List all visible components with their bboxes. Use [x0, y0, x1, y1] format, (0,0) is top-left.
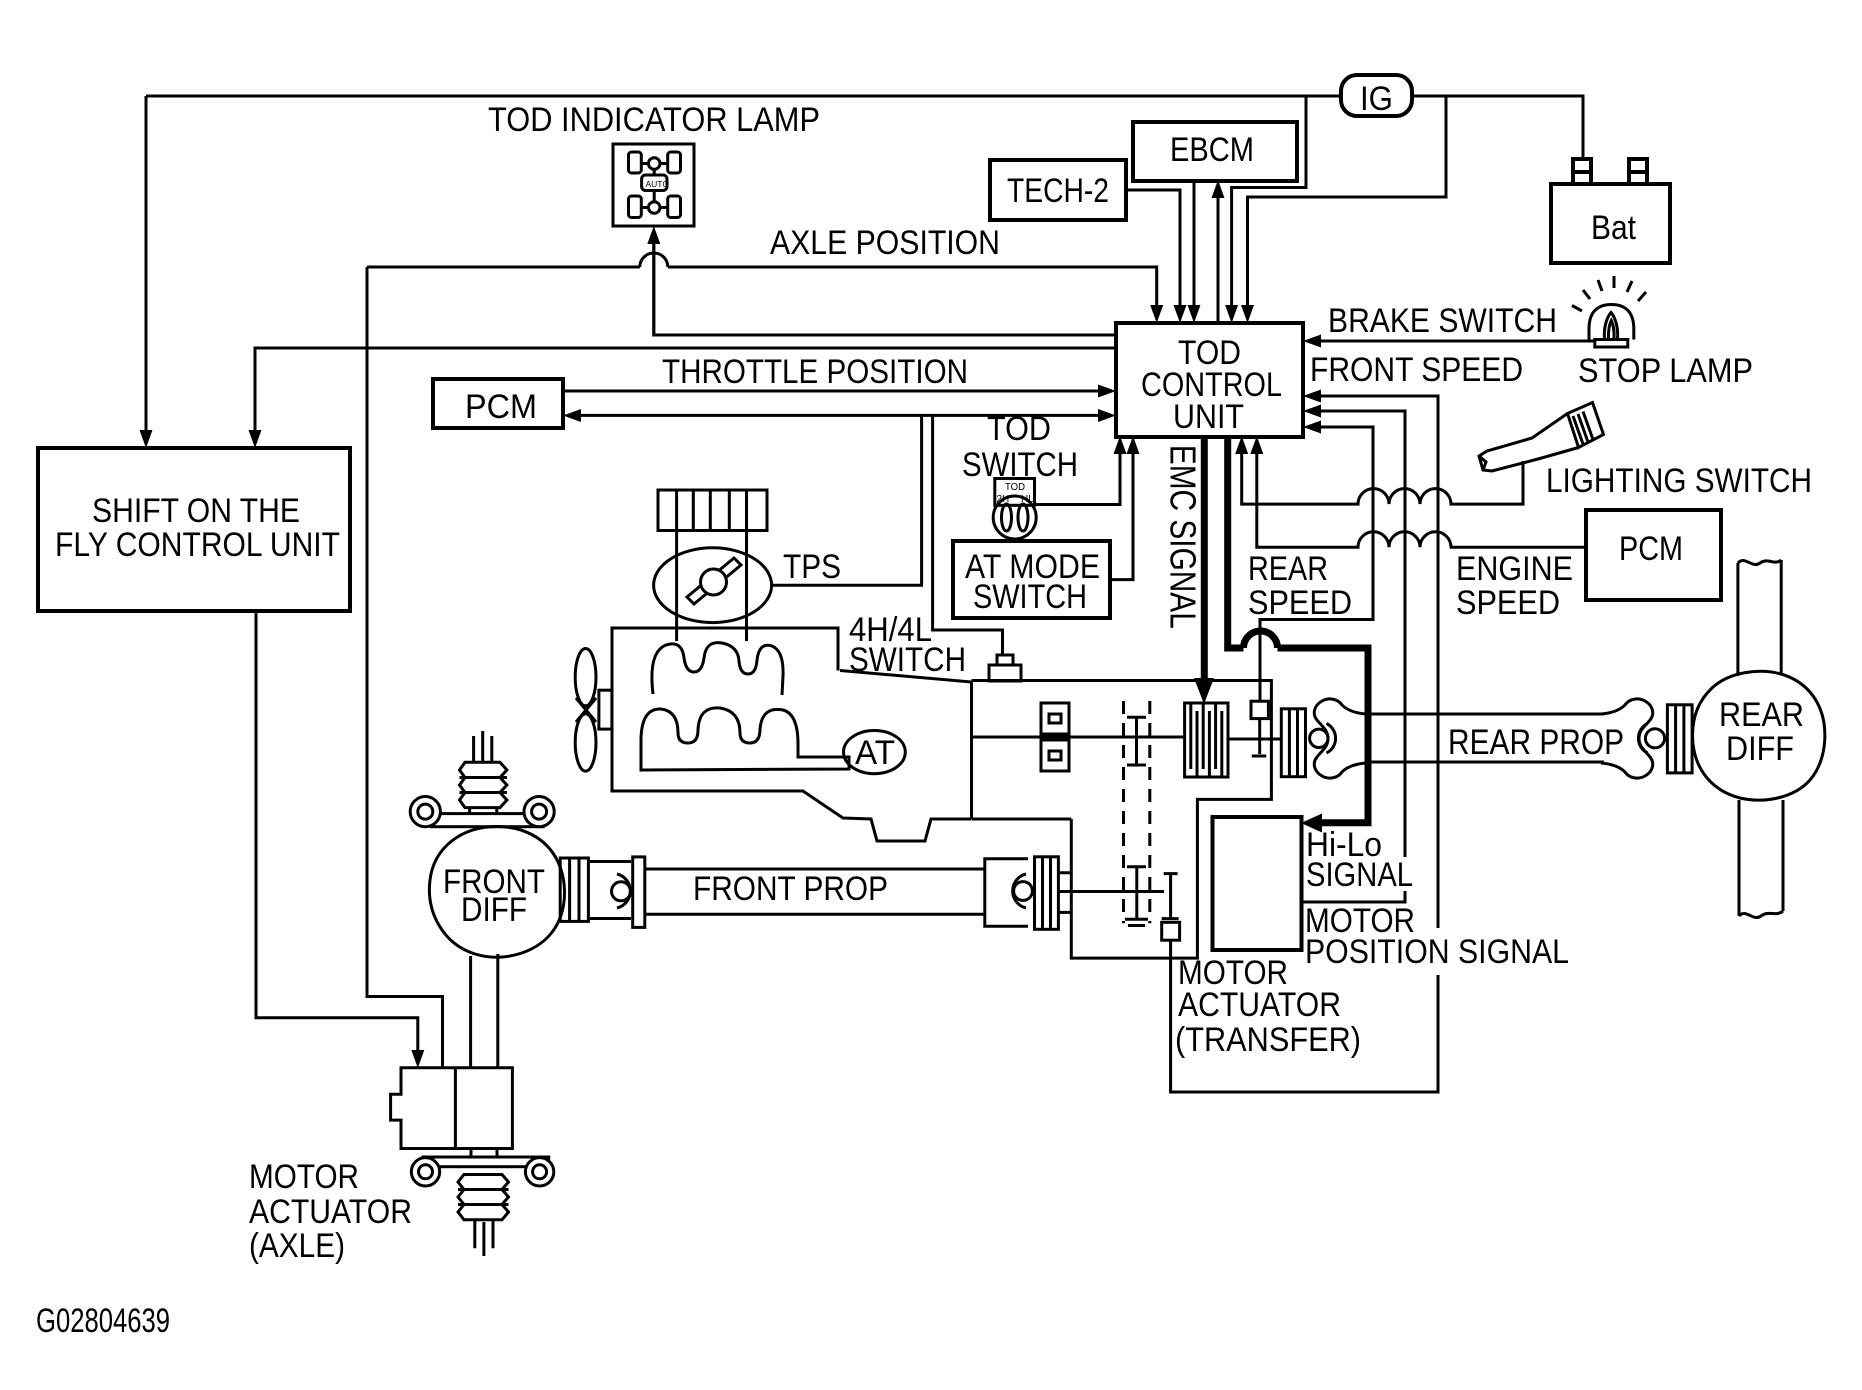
svg-text:UNIT: UNIT [1173, 398, 1244, 436]
box SHIFT ON THE FLY CONTROL UNIT [38, 448, 350, 611]
svg-text:DIFF: DIFF [461, 891, 527, 929]
axle bottom stub [475, 1220, 493, 1256]
rear prop shaft top [1366, 713, 1604, 716]
wire brake switch to TOD [1318, 340, 1595, 343]
wire throttle position PCM to TOD [563, 390, 1101, 393]
front prop right u-joint circle [1014, 882, 1033, 901]
rear u-joint arc [1327, 724, 1336, 754]
wire TOD to SHIFT unit [255, 348, 1116, 432]
shift fork dashed guide [1124, 701, 1150, 923]
arrowhead throttle position into TOD [1098, 385, 1116, 398]
svg-text:(AXLE): (AXLE) [249, 1227, 345, 1265]
wire EBCM to TOD [1193, 181, 1196, 308]
front output gear [1162, 874, 1179, 919]
svg-text:SPEED: SPEED [1248, 584, 1352, 622]
wire TECH-2 to TOD [1126, 190, 1180, 308]
TOD switch body [995, 479, 1035, 506]
stop lamp flame inner [1608, 321, 1614, 340]
engine fan blade top [575, 649, 596, 706]
svg-text:ENGINE: ENGINE [1456, 550, 1573, 588]
svg-text:AT: AT [855, 734, 895, 772]
rear u-joint circle [1310, 729, 1328, 747]
svg-text:MOTOR: MOTOR [249, 1158, 359, 1196]
wire TOD to EBCM [1217, 196, 1220, 323]
svg-text:TECH-2: TECH-2 [1007, 172, 1109, 210]
svg-text:ACTUATOR: ACTUATOR [1178, 986, 1341, 1024]
svg-text:REAR: REAR [1719, 696, 1804, 734]
arrowhead TPS bus into PCM [563, 409, 581, 422]
throttle plate bar [687, 558, 741, 604]
lamp icon wheel front-right [668, 152, 681, 173]
svg-text:IG: IG [1360, 80, 1393, 118]
wire AXLE POSITION hop over lamp wire [640, 253, 668, 267]
arrowhead thick EMC into clutch [1194, 678, 1214, 704]
throttle body ellipse [654, 548, 772, 623]
stop lamp rays [1572, 276, 1646, 311]
svg-text:HL: HL [1021, 494, 1034, 505]
AT ellipse [844, 731, 906, 774]
svg-text:FRONT SPEED: FRONT SPEED [1310, 351, 1523, 389]
front prop right yoke box [985, 859, 1028, 927]
svg-text:DIFF: DIFF [1726, 730, 1794, 768]
wire IG to battery [1412, 96, 1583, 160]
engine fan cross [576, 698, 596, 722]
wire IG branch A to TOD [1232, 96, 1306, 308]
arrowhead IG-B into TOD [1241, 305, 1254, 323]
svg-text:TOD INDICATOR LAMP: TOD INDICATOR LAMP [488, 101, 820, 139]
front output shaft line [1059, 890, 1165, 893]
svg-text:THROTTLE POSITION: THROTTLE POSITION [662, 353, 968, 391]
svg-text:REAR PROP: REAR PROP [1448, 723, 1624, 762]
arrowhead ebcm into TOD [1188, 305, 1201, 323]
transmission transfer boundary [970, 682, 973, 819]
wire TOD switch to TOD [1035, 452, 1120, 505]
wire lamp arrow stem [652, 240, 655, 335]
intake manifold ribs [677, 490, 747, 531]
transmission top slope [840, 671, 972, 683]
intake runner right [745, 531, 748, 642]
svg-text:SWITCH: SWITCH [973, 578, 1087, 616]
TOD switch grip right [1018, 504, 1028, 531]
axle ring bottom left [411, 1158, 439, 1186]
box TECH-2 [990, 160, 1126, 220]
motor actuator axle box [391, 1068, 513, 1149]
engine block [612, 628, 971, 841]
lamp icon rear diff circle [648, 202, 660, 214]
arrowhead TPS bus into TOD [1098, 409, 1116, 422]
transfer clutch pack [1185, 703, 1228, 777]
box AT MODE SWITCH [953, 541, 1110, 618]
transmission bottom [972, 818, 1072, 821]
front diff output shaft [471, 954, 498, 1068]
engine fan blade bottom [575, 714, 596, 771]
rear output coupling [1281, 709, 1305, 777]
arrowhead front speed into TOD [1303, 390, 1321, 403]
transfer mid gear upper [1041, 703, 1069, 734]
thick Hi-Lo hop over rear speed wire [1244, 631, 1278, 648]
axle lower shaft [471, 1149, 497, 1158]
front diff housing [429, 827, 564, 958]
wire AXLE POSITION down from actuator [367, 267, 443, 1067]
svg-text:EMC SIGNAL: EMC SIGNAL [1163, 445, 1204, 629]
svg-text:SPEED: SPEED [1456, 584, 1560, 622]
lamp icon front axle [641, 162, 667, 165]
front speed sensor [1162, 922, 1180, 940]
front prop right coupling [1035, 857, 1059, 930]
svg-text:SWITCH: SWITCH [849, 641, 966, 679]
wire engine speed line with coil [1257, 452, 1586, 547]
svg-text:TOD: TOD [987, 410, 1051, 448]
lighting switch flashlight [1479, 403, 1604, 472]
TOD switch grip left [1002, 504, 1012, 531]
box PCM right [1586, 510, 1721, 600]
wire motor position signal to TOD [1318, 411, 1405, 857]
lamp icon AUTO badge [642, 175, 667, 191]
svg-text:PCM: PCM [1619, 530, 1683, 568]
front diff yoke box [588, 862, 631, 919]
rear diff coupling [1667, 705, 1692, 773]
svg-text:EBCM: EBCM [1170, 131, 1254, 169]
box battery [1551, 184, 1670, 263]
svg-text:SHIFT ON THE: SHIFT ON THE [92, 492, 300, 530]
axle crossbar bottom [423, 1157, 549, 1167]
svg-text:BRAKE SWITCH: BRAKE SWITCH [1328, 302, 1557, 340]
rear diff yoke fork [1601, 699, 1653, 778]
svg-text:AUTO: AUTO [646, 179, 670, 189]
front diff coupling [560, 858, 588, 921]
arrowhead tech2 into TOD [1174, 305, 1187, 323]
front axle ring left [410, 797, 440, 827]
svg-text:(TRANSFER): (TRANSFER) [1175, 1021, 1361, 1059]
front diff u-joint circle [612, 882, 631, 901]
lamp icon rear axle [641, 206, 667, 209]
battery terminal left [1573, 159, 1591, 184]
wire TPS bus PCM to TOD [578, 414, 1101, 417]
arrowhead AT mode into TOD [1127, 436, 1140, 454]
svg-text:STOP LAMP: STOP LAMP [1578, 352, 1753, 390]
box motor actuator transfer [1213, 817, 1302, 950]
arrowhead engine speed into TOD [1250, 436, 1263, 454]
front axle shaft stub [474, 731, 492, 763]
arrowhead rear speed into TOD [1303, 421, 1321, 434]
svg-text:AXLE POSITION: AXLE POSITION [770, 224, 1000, 262]
axle ring bottom right [525, 1158, 553, 1186]
intake runner left [675, 531, 678, 642]
arrowhead TOD switch into TOD [1114, 436, 1127, 454]
rear prop shaft bottom [1366, 761, 1604, 764]
intake manifold box [658, 490, 767, 531]
rear axle shaft upper [1738, 560, 1781, 676]
stop lamp base [1595, 340, 1628, 348]
arrowhead brake switch into TOD [1303, 335, 1321, 348]
transfer output stub [1228, 738, 1281, 741]
rear diff u-joint circle [1645, 729, 1664, 748]
arrowhead axle position into TOD [1150, 305, 1163, 323]
wire TPS tap [772, 415, 922, 585]
front axle crossbar [431, 814, 543, 827]
front axle boot neck [470, 808, 497, 814]
thick Hi-Lo signal line [1228, 437, 1244, 648]
svg-text:G02804639: G02804639 [36, 1302, 170, 1340]
wire IG main bus top [146, 95, 1341, 98]
svg-text:LIGHTING SWITCH: LIGHTING SWITCH [1546, 462, 1812, 500]
shift fork upper gear [1127, 717, 1146, 765]
rear axle shaft lower [1739, 800, 1783, 916]
lamp icon wheel rear-right [668, 196, 681, 218]
engine intake squiggle [652, 643, 783, 695]
TOD switch knob circle [993, 496, 1036, 539]
front diff flange [633, 857, 645, 928]
wire 4H-4L switch tap [933, 415, 1003, 655]
thick EMC signal line [1201, 437, 1208, 682]
engine fan hub [599, 690, 612, 729]
wire front speed sensor to TOD [1318, 396, 1438, 928]
wire AXLE POSITION left part [367, 266, 640, 269]
wire SHIFT unit to axle actuator [256, 611, 418, 1052]
shift fork lower gear [1125, 867, 1148, 926]
throttle shaft circle [701, 569, 727, 595]
wire front speed lower segment [1171, 940, 1438, 1092]
lamp icon front diff circle [648, 158, 660, 170]
front prop shaft top [645, 868, 985, 871]
front prop shaft bottom [645, 913, 985, 916]
svg-text:ACTUATOR: ACTUATOR [249, 1193, 412, 1231]
box EBCM [1133, 122, 1297, 181]
wire TOD to indicator lamp [654, 242, 1116, 335]
svg-text:TPS: TPS [783, 548, 841, 586]
lamp icon driveline rear [653, 191, 656, 202]
front diff u-joint arc [617, 874, 630, 908]
svg-text:SWITCH: SWITCH [962, 446, 1078, 484]
arrowhead up into indicator lamp [647, 226, 660, 244]
transfer main shaft [972, 736, 1185, 739]
rear speed sensor stem [1252, 719, 1266, 756]
svg-text:POSITION SIGNAL: POSITION SIGNAL [1305, 933, 1569, 971]
svg-text:2H: 2H [997, 494, 1010, 505]
box PCM left [433, 379, 563, 428]
arrowhead TOD up into EBCM [1212, 180, 1225, 198]
battery terminal right [1629, 159, 1647, 184]
4H4L switch bolt [989, 655, 1021, 681]
arrowhead lighting into TOD [1235, 436, 1248, 454]
arrowhead into SHIFT unit left [140, 430, 153, 448]
thick Hi-Lo line to motor actuator [1278, 648, 1369, 823]
svg-text:PCM: PCM [465, 388, 537, 426]
wire IG branch B to TOD [1248, 96, 1447, 308]
front axle ring right [524, 797, 554, 827]
rear diff u-joint arc [1638, 724, 1647, 754]
wire AXLE POSITION right part to TOD [668, 267, 1157, 308]
rear yoke fork [1314, 699, 1366, 778]
svg-text:Bat: Bat [1591, 209, 1636, 247]
svg-text:TOD: TOD [1005, 482, 1025, 493]
rear diff housing [1693, 671, 1825, 800]
arrowhead thick Hi-Lo into motor actuator [1301, 814, 1322, 833]
lamp icon wheel rear-left [629, 196, 642, 218]
rear speed sensor [1251, 701, 1268, 718]
svg-text:FLY CONTROL UNIT: FLY CONTROL UNIT [55, 526, 340, 564]
engine exhaust manifold squiggle [641, 708, 849, 770]
arrowhead into SHIFT unit right [249, 430, 262, 448]
arrowhead motor position into TOD [1303, 405, 1321, 418]
front axle boot [460, 762, 507, 807]
arrowhead shift command into axle actuator [411, 1050, 424, 1068]
transfer mid gear lower [1041, 740, 1069, 771]
stop lamp dome [1589, 305, 1634, 340]
lamp icon driveline front [653, 169, 656, 175]
axle boot bottom [458, 1175, 509, 1220]
svg-text:REAR: REAR [1248, 550, 1328, 588]
box TOD indicator lamp [613, 144, 694, 226]
arrowhead IG-A into TOD [1225, 305, 1238, 323]
transfer case outline [972, 681, 1272, 959]
box TOD CONTROL UNIT [1116, 323, 1303, 437]
wire AT mode switch to TOD [1111, 452, 1134, 580]
front prop right u-joint arc [1013, 874, 1026, 908]
box IG [1341, 75, 1412, 116]
wire lighting switch line with coil [1242, 452, 1523, 504]
lamp icon wheel front-left [629, 152, 642, 173]
motor actuator axle divider [454, 1068, 457, 1149]
wire ignition down to SHIFT unit [145, 96, 148, 432]
svg-text:SIGNAL: SIGNAL [1306, 856, 1413, 894]
front output stub lines [1058, 873, 1072, 913]
stop lamp flame outer [1604, 313, 1617, 340]
svg-text:FRONT PROP: FRONT PROP [693, 870, 888, 908]
wire rear speed sensor to TOD [1260, 427, 1373, 701]
